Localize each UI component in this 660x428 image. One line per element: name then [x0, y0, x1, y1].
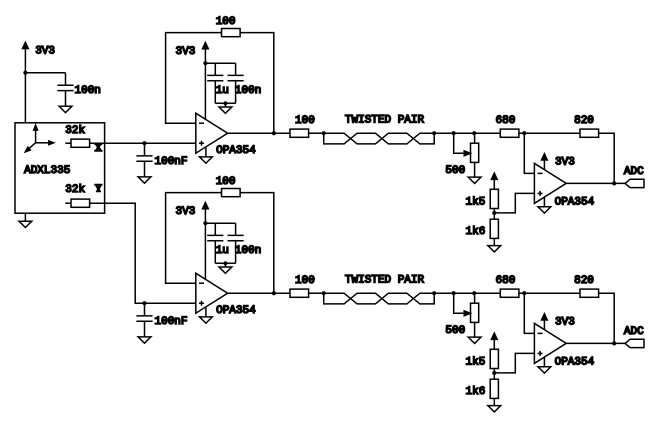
svg-text:100: 100	[216, 176, 236, 188]
power 3V3 supply arrow (left)	[23, 42, 56, 123]
svg-text:OPA354: OPA354	[555, 357, 595, 369]
wire receiver output (A)	[566, 182, 625, 184]
node: trimmer top (B)	[472, 291, 476, 295]
node: filter cap junction (A)	[142, 141, 146, 145]
svg-text:100nF: 100nF	[155, 316, 188, 328]
resistor R1 32k (X output)	[65, 125, 103, 154]
ground (op-amp U1)	[200, 147, 213, 163]
resistor R 1k5 (B)	[466, 349, 499, 368]
svg-text:500: 500	[445, 325, 465, 337]
resistor R 1k6 (A)	[466, 219, 499, 238]
power arrow (1k5 top A)	[491, 173, 497, 189]
node: trimmer wiper tap (A)	[452, 131, 456, 135]
svg-text:1k5: 1k5	[466, 196, 486, 208]
capacitor 1u (bypass A)	[207, 75, 229, 103]
node: inverting input junction (B)	[522, 291, 526, 295]
wire	[25, 72, 65, 74]
ground (100nF B)	[138, 337, 151, 343]
svg-text:32k: 32k	[65, 125, 85, 137]
twisted pair cable (A)	[322, 114, 437, 143]
svg-text:1k6: 1k6	[466, 386, 486, 398]
wire 680 to 820 (B)	[519, 292, 580, 294]
wire to inverting input (A)	[524, 133, 534, 173]
svg-text:TWISTED PAIR: TWISTED PAIR	[345, 274, 425, 286]
op-amp U2 OPA354 (receiver)	[534, 163, 594, 208]
resistor R 100 series (B)	[290, 275, 315, 297]
wire feedback loop (A)	[166, 33, 222, 124]
svg-text:1k5: 1k5	[466, 356, 486, 368]
IC ADXL335 body	[15, 123, 105, 213]
svg-text:100: 100	[216, 16, 236, 28]
svg-text:500: 500	[445, 165, 465, 177]
wire bypass top (B)	[205, 223, 235, 235]
svg-text:100n: 100n	[75, 85, 101, 97]
wire divider (B)	[493, 369, 495, 380]
capacitor C 100nF (input filter A)	[136, 143, 187, 177]
node: bypass junction (B)	[203, 221, 207, 225]
wire to twisted pair (B)	[309, 292, 324, 294]
wire to inverting input (B)	[524, 293, 534, 333]
op-amp U4 OPA354 (receiver)	[534, 323, 594, 368]
ground (C1)	[59, 106, 72, 112]
wire to twisted pair (A)	[309, 132, 324, 134]
ground (bypass caps A)	[219, 103, 232, 113]
ground (500 trimmer A)	[468, 177, 481, 183]
svg-text:3V3: 3V3	[176, 46, 196, 58]
node: bypass junction (A)	[203, 61, 207, 65]
wire to non-inverting input (B)	[494, 353, 534, 373]
resistor R 680 (A)	[496, 115, 519, 137]
svg-text:OPA354: OPA354	[216, 145, 256, 157]
ADC output tag (A)	[624, 166, 644, 188]
resistor R 100 feedback (B)	[216, 176, 240, 197]
svg-text:ADC: ADC	[624, 326, 644, 338]
svg-text:100: 100	[295, 115, 315, 127]
svg-text:100n: 100n	[235, 85, 261, 97]
power 3V3 arrow (buffer A)	[176, 43, 209, 120]
svg-text:3V3: 3V3	[555, 316, 575, 328]
wire 1k6 to ground (B)	[493, 398, 495, 405]
svg-text:1k6: 1k6	[466, 226, 486, 238]
wire bypass bottom (A)	[215, 102, 235, 104]
resistor R2 32k (Y output)	[65, 184, 103, 208]
ground (1k6 A)	[488, 246, 501, 252]
node: ADC output (B)	[612, 341, 616, 345]
svg-text:100: 100	[295, 275, 315, 287]
power 3V3 arrow (receiver A)	[542, 154, 575, 170]
svg-text:3V3: 3V3	[35, 46, 55, 58]
power 3V3 arrow (receiver B)	[542, 314, 575, 330]
wire receiver output (B)	[566, 342, 625, 344]
wire bypass bottom (B)	[215, 262, 235, 264]
wire to non-inverting input (A)	[494, 193, 534, 213]
svg-text:680: 680	[496, 115, 516, 127]
ground (100nF A)	[138, 177, 151, 183]
wire 1k6 to ground (A)	[493, 238, 495, 245]
wire 820 to output (B)	[599, 293, 615, 343]
ground (bypass caps B)	[219, 263, 232, 273]
svg-text:TWISTED PAIR: TWISTED PAIR	[345, 114, 425, 126]
capacitor 1u (bypass B)	[207, 235, 229, 263]
wire X output	[90, 142, 196, 144]
trimmer R 500 (A)	[445, 133, 478, 177]
svg-text:680: 680	[496, 275, 516, 287]
capacitor 100n (bypass A)	[228, 75, 262, 103]
ground (op-amp U2)	[538, 197, 551, 213]
resistor R 100 series (A)	[290, 115, 315, 137]
capacitor C1 100n (supply decoupling)	[57, 73, 101, 107]
node: buffer output (B)	[272, 291, 276, 295]
power arrow (1k5 top B)	[491, 333, 497, 349]
capacitor C 100nF (input filter B)	[136, 303, 187, 337]
resistor R 680 (B)	[496, 275, 519, 297]
svg-text:OPA354: OPA354	[216, 305, 256, 317]
wire after twisted pair (A)	[434, 132, 500, 134]
wire buffer output (A)	[228, 132, 290, 134]
ground (op-amp U3)	[200, 307, 213, 323]
wire divider (A)	[493, 209, 495, 220]
ground (ADXL335)	[19, 213, 32, 227]
capacitor 100n (bypass B)	[228, 235, 262, 263]
node: ADC output (A)	[612, 181, 616, 185]
op-amp U1 OPA354 (buffer)	[196, 113, 256, 157]
node: bypass ground junction (B)	[223, 261, 227, 265]
svg-text:Y: Y	[95, 184, 103, 195]
node: 3V3/100n junction	[23, 71, 27, 75]
wire 680 to 820 (A)	[519, 132, 580, 134]
ADC output tag (B)	[624, 326, 644, 348]
resistor R 1k5 (A)	[466, 189, 499, 208]
resistor R 100 feedback (A)	[216, 16, 240, 37]
twisted pair cable (B)	[322, 274, 437, 304]
svg-text:820: 820	[574, 275, 594, 287]
svg-text:100n: 100n	[235, 245, 261, 257]
wire feedback right (B)	[240, 193, 274, 294]
wire feedback loop (B)	[166, 193, 222, 284]
ground (500 trimmer B)	[468, 337, 481, 343]
svg-text:100nF: 100nF	[155, 156, 188, 168]
trimmer R 500 (B)	[445, 293, 478, 337]
node: trimmer top (A)	[472, 131, 476, 135]
wire 820 to output (A)	[599, 133, 615, 183]
node: divider tap (A)	[492, 211, 496, 215]
wire feedback right (A)	[240, 33, 274, 134]
svg-text:OPA354: OPA354	[555, 197, 595, 209]
resistor R 820 feedback (A)	[574, 115, 599, 137]
svg-text:1u: 1u	[216, 85, 229, 97]
resistor R 1k6 (B)	[466, 379, 499, 398]
svg-text:1u: 1u	[216, 245, 229, 257]
wire buffer output (B)	[228, 292, 290, 294]
node: buffer output (A)	[272, 131, 276, 135]
svg-text:820: 820	[574, 115, 594, 127]
svg-text:32k: 32k	[65, 184, 85, 196]
svg-text:3V3: 3V3	[176, 206, 196, 218]
node: filter cap junction (B)	[142, 301, 146, 305]
svg-text:X: X	[95, 143, 103, 154]
node: divider tap (B)	[492, 371, 496, 375]
svg-text:ADXL335: ADXL335	[24, 165, 70, 177]
node: trimmer wiper tap (B)	[452, 291, 456, 295]
power 3V3 arrow (buffer B)	[176, 203, 209, 280]
wire after twisted pair (B)	[434, 292, 500, 294]
ground (1k6 B)	[488, 406, 501, 412]
axes symbol (accelerometer orientation)	[25, 125, 54, 152]
svg-text:ADC: ADC	[624, 166, 644, 178]
ground (op-amp U4)	[538, 357, 551, 373]
svg-text:3V3: 3V3	[555, 156, 575, 168]
wire bypass top (A)	[205, 63, 235, 75]
node: bypass ground junction (A)	[223, 101, 227, 105]
op-amp U3 OPA354 (buffer)	[196, 273, 256, 317]
resistor R 820 feedback (B)	[574, 275, 599, 297]
wire Y output	[90, 203, 196, 303]
node: inverting input junction (A)	[522, 131, 526, 135]
